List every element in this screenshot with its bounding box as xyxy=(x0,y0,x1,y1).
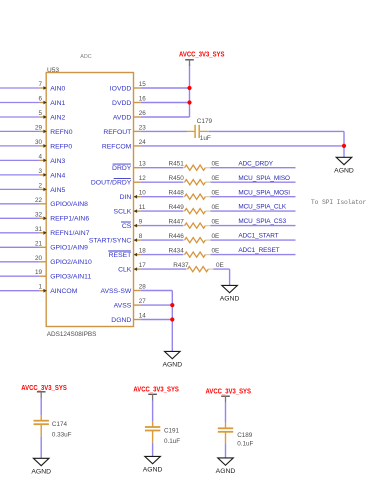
svg-text:20: 20 xyxy=(35,255,43,262)
svg-text:0E: 0E xyxy=(212,161,220,168)
svg-text:AIN0: AIN0 xyxy=(50,85,65,92)
svg-text:AVCC_3V3_SYS: AVCC_3V3_SYS xyxy=(21,385,67,392)
svg-text:AGND: AGND xyxy=(216,468,236,475)
svg-text:AGND: AGND xyxy=(162,362,182,369)
svg-text:0E: 0E xyxy=(216,262,224,269)
svg-text:R448: R448 xyxy=(169,190,185,197)
svg-text:IOVDD: IOVDD xyxy=(110,85,132,92)
svg-text:8: 8 xyxy=(139,233,143,240)
svg-text:SCLK: SCLK xyxy=(114,209,132,216)
svg-text:11: 11 xyxy=(139,204,146,211)
svg-text:0E: 0E xyxy=(212,204,220,211)
svg-text:28: 28 xyxy=(139,284,147,291)
svg-text:AVSS-SW: AVSS-SW xyxy=(100,288,131,295)
svg-text:26: 26 xyxy=(139,110,147,117)
svg-text:GPIO0/AIN8: GPIO0/AIN8 xyxy=(50,201,88,208)
svg-text:0.1uF: 0.1uF xyxy=(164,438,180,445)
svg-text:MCU_SPIA_MISO: MCU_SPIA_MISO xyxy=(238,175,290,182)
svg-text:DGND: DGND xyxy=(111,317,131,324)
svg-text:C174: C174 xyxy=(52,421,68,428)
svg-text:AGND: AGND xyxy=(143,467,163,474)
svg-text:4: 4 xyxy=(38,153,42,160)
svg-text:ADC1_START: ADC1_START xyxy=(238,233,278,240)
svg-text:AVSS: AVSS xyxy=(114,303,132,310)
svg-text:15: 15 xyxy=(139,81,147,88)
svg-text:19: 19 xyxy=(35,269,43,276)
svg-text:R437: R437 xyxy=(173,262,189,269)
svg-text:MCU_SPIA_CS3: MCU_SPIA_CS3 xyxy=(238,218,286,225)
svg-text:R434: R434 xyxy=(169,247,185,254)
svg-text:0.1uF: 0.1uF xyxy=(237,440,253,447)
svg-text:CLK: CLK xyxy=(118,267,132,274)
svg-text:21: 21 xyxy=(35,240,43,247)
svg-text:CS: CS xyxy=(122,223,132,230)
svg-text:3: 3 xyxy=(38,168,42,175)
svg-text:To SPI Isolator: To SPI Isolator xyxy=(311,199,367,206)
svg-text:MCU_SPIA_CLK: MCU_SPIA_CLK xyxy=(238,204,287,211)
svg-text:START/SYNC: START/SYNC xyxy=(89,238,132,245)
svg-text:GPIO1/AIN9: GPIO1/AIN9 xyxy=(50,245,88,252)
svg-text:AGND: AGND xyxy=(220,296,240,303)
svg-text:AGND: AGND xyxy=(334,168,354,175)
svg-text:AVDD: AVDD xyxy=(113,114,131,121)
svg-text:ADC: ADC xyxy=(80,54,91,60)
svg-text:22: 22 xyxy=(35,197,43,204)
svg-text:AGND: AGND xyxy=(31,469,51,476)
svg-text:AVCC_3V3_SYS: AVCC_3V3_SYS xyxy=(179,52,225,59)
svg-text:7: 7 xyxy=(38,81,42,88)
svg-text:30: 30 xyxy=(35,139,43,146)
svg-text:AVCC_3V3_SYS: AVCC_3V3_SYS xyxy=(206,388,252,395)
svg-text:AVCC_3V3_SYS: AVCC_3V3_SYS xyxy=(133,386,179,393)
svg-text:REFN1/AIN7: REFN1/AIN7 xyxy=(50,230,90,237)
svg-text:10: 10 xyxy=(139,190,147,197)
svg-text:MCU_SPIA_MOSI: MCU_SPIA_MOSI xyxy=(238,189,290,196)
svg-text:13: 13 xyxy=(139,161,147,168)
svg-text:C189: C189 xyxy=(237,432,253,439)
svg-text:DIN: DIN xyxy=(120,194,132,201)
svg-text:1uF: 1uF xyxy=(200,135,211,142)
svg-text:29: 29 xyxy=(35,124,43,131)
svg-text:1: 1 xyxy=(38,284,42,291)
svg-text:R449: R449 xyxy=(169,204,185,211)
svg-text:AIN3: AIN3 xyxy=(50,158,65,165)
svg-text:0E: 0E xyxy=(212,218,220,225)
svg-text:6: 6 xyxy=(38,96,42,103)
svg-text:ADC_DRDY: ADC_DRDY xyxy=(238,160,273,167)
svg-text:14: 14 xyxy=(139,313,147,320)
svg-text:2: 2 xyxy=(38,182,42,189)
svg-text:9: 9 xyxy=(139,219,143,226)
svg-text:DVDD: DVDD xyxy=(112,100,131,107)
svg-text:R451: R451 xyxy=(169,161,185,168)
svg-text:DRDY: DRDY xyxy=(112,165,132,172)
svg-text:18: 18 xyxy=(139,248,147,255)
svg-text:ADC1_RESET: ADC1_RESET xyxy=(238,247,279,254)
svg-text:DOUT/DRDY: DOUT/DRDY xyxy=(91,180,132,187)
svg-text:GPIO3/AIN11: GPIO3/AIN11 xyxy=(50,274,91,281)
svg-text:AIN4: AIN4 xyxy=(50,172,65,179)
svg-text:AIN1: AIN1 xyxy=(50,100,65,107)
svg-text:AIN5: AIN5 xyxy=(50,187,65,194)
svg-text:0E: 0E xyxy=(212,175,220,182)
svg-text:REFN0: REFN0 xyxy=(50,129,73,136)
svg-text:27: 27 xyxy=(139,298,147,305)
svg-text:AIN2: AIN2 xyxy=(50,114,65,121)
svg-text:REFCOM: REFCOM xyxy=(102,143,132,150)
svg-text:U53: U53 xyxy=(47,67,59,74)
svg-text:12: 12 xyxy=(139,175,147,182)
svg-text:32: 32 xyxy=(35,211,43,218)
svg-text:REFOUT: REFOUT xyxy=(103,129,131,136)
svg-text:0E: 0E xyxy=(212,190,220,197)
svg-text:17: 17 xyxy=(139,262,147,269)
svg-text:AINCOM: AINCOM xyxy=(50,288,78,295)
svg-text:R446: R446 xyxy=(169,233,185,240)
svg-text:16: 16 xyxy=(139,96,147,103)
svg-text:C179: C179 xyxy=(197,118,213,125)
svg-text:5: 5 xyxy=(38,110,42,117)
svg-text:31: 31 xyxy=(35,226,43,233)
svg-text:0E: 0E xyxy=(212,247,220,254)
svg-text:R450: R450 xyxy=(169,175,185,182)
svg-text:0E: 0E xyxy=(212,233,220,240)
svg-text:0.33uF: 0.33uF xyxy=(52,432,72,439)
svg-text:GPIO2/AIN10: GPIO2/AIN10 xyxy=(50,259,92,266)
svg-text:C191: C191 xyxy=(164,427,180,434)
svg-text:24: 24 xyxy=(139,139,147,146)
svg-text:23: 23 xyxy=(139,124,147,131)
svg-text:REFP1/AIN6: REFP1/AIN6 xyxy=(50,216,89,223)
svg-text:ADS124S08IPBS: ADS124S08IPBS xyxy=(47,331,97,338)
svg-text:RESET: RESET xyxy=(109,252,132,259)
svg-text:REFP0: REFP0 xyxy=(50,143,72,150)
svg-text:R447: R447 xyxy=(169,218,185,225)
